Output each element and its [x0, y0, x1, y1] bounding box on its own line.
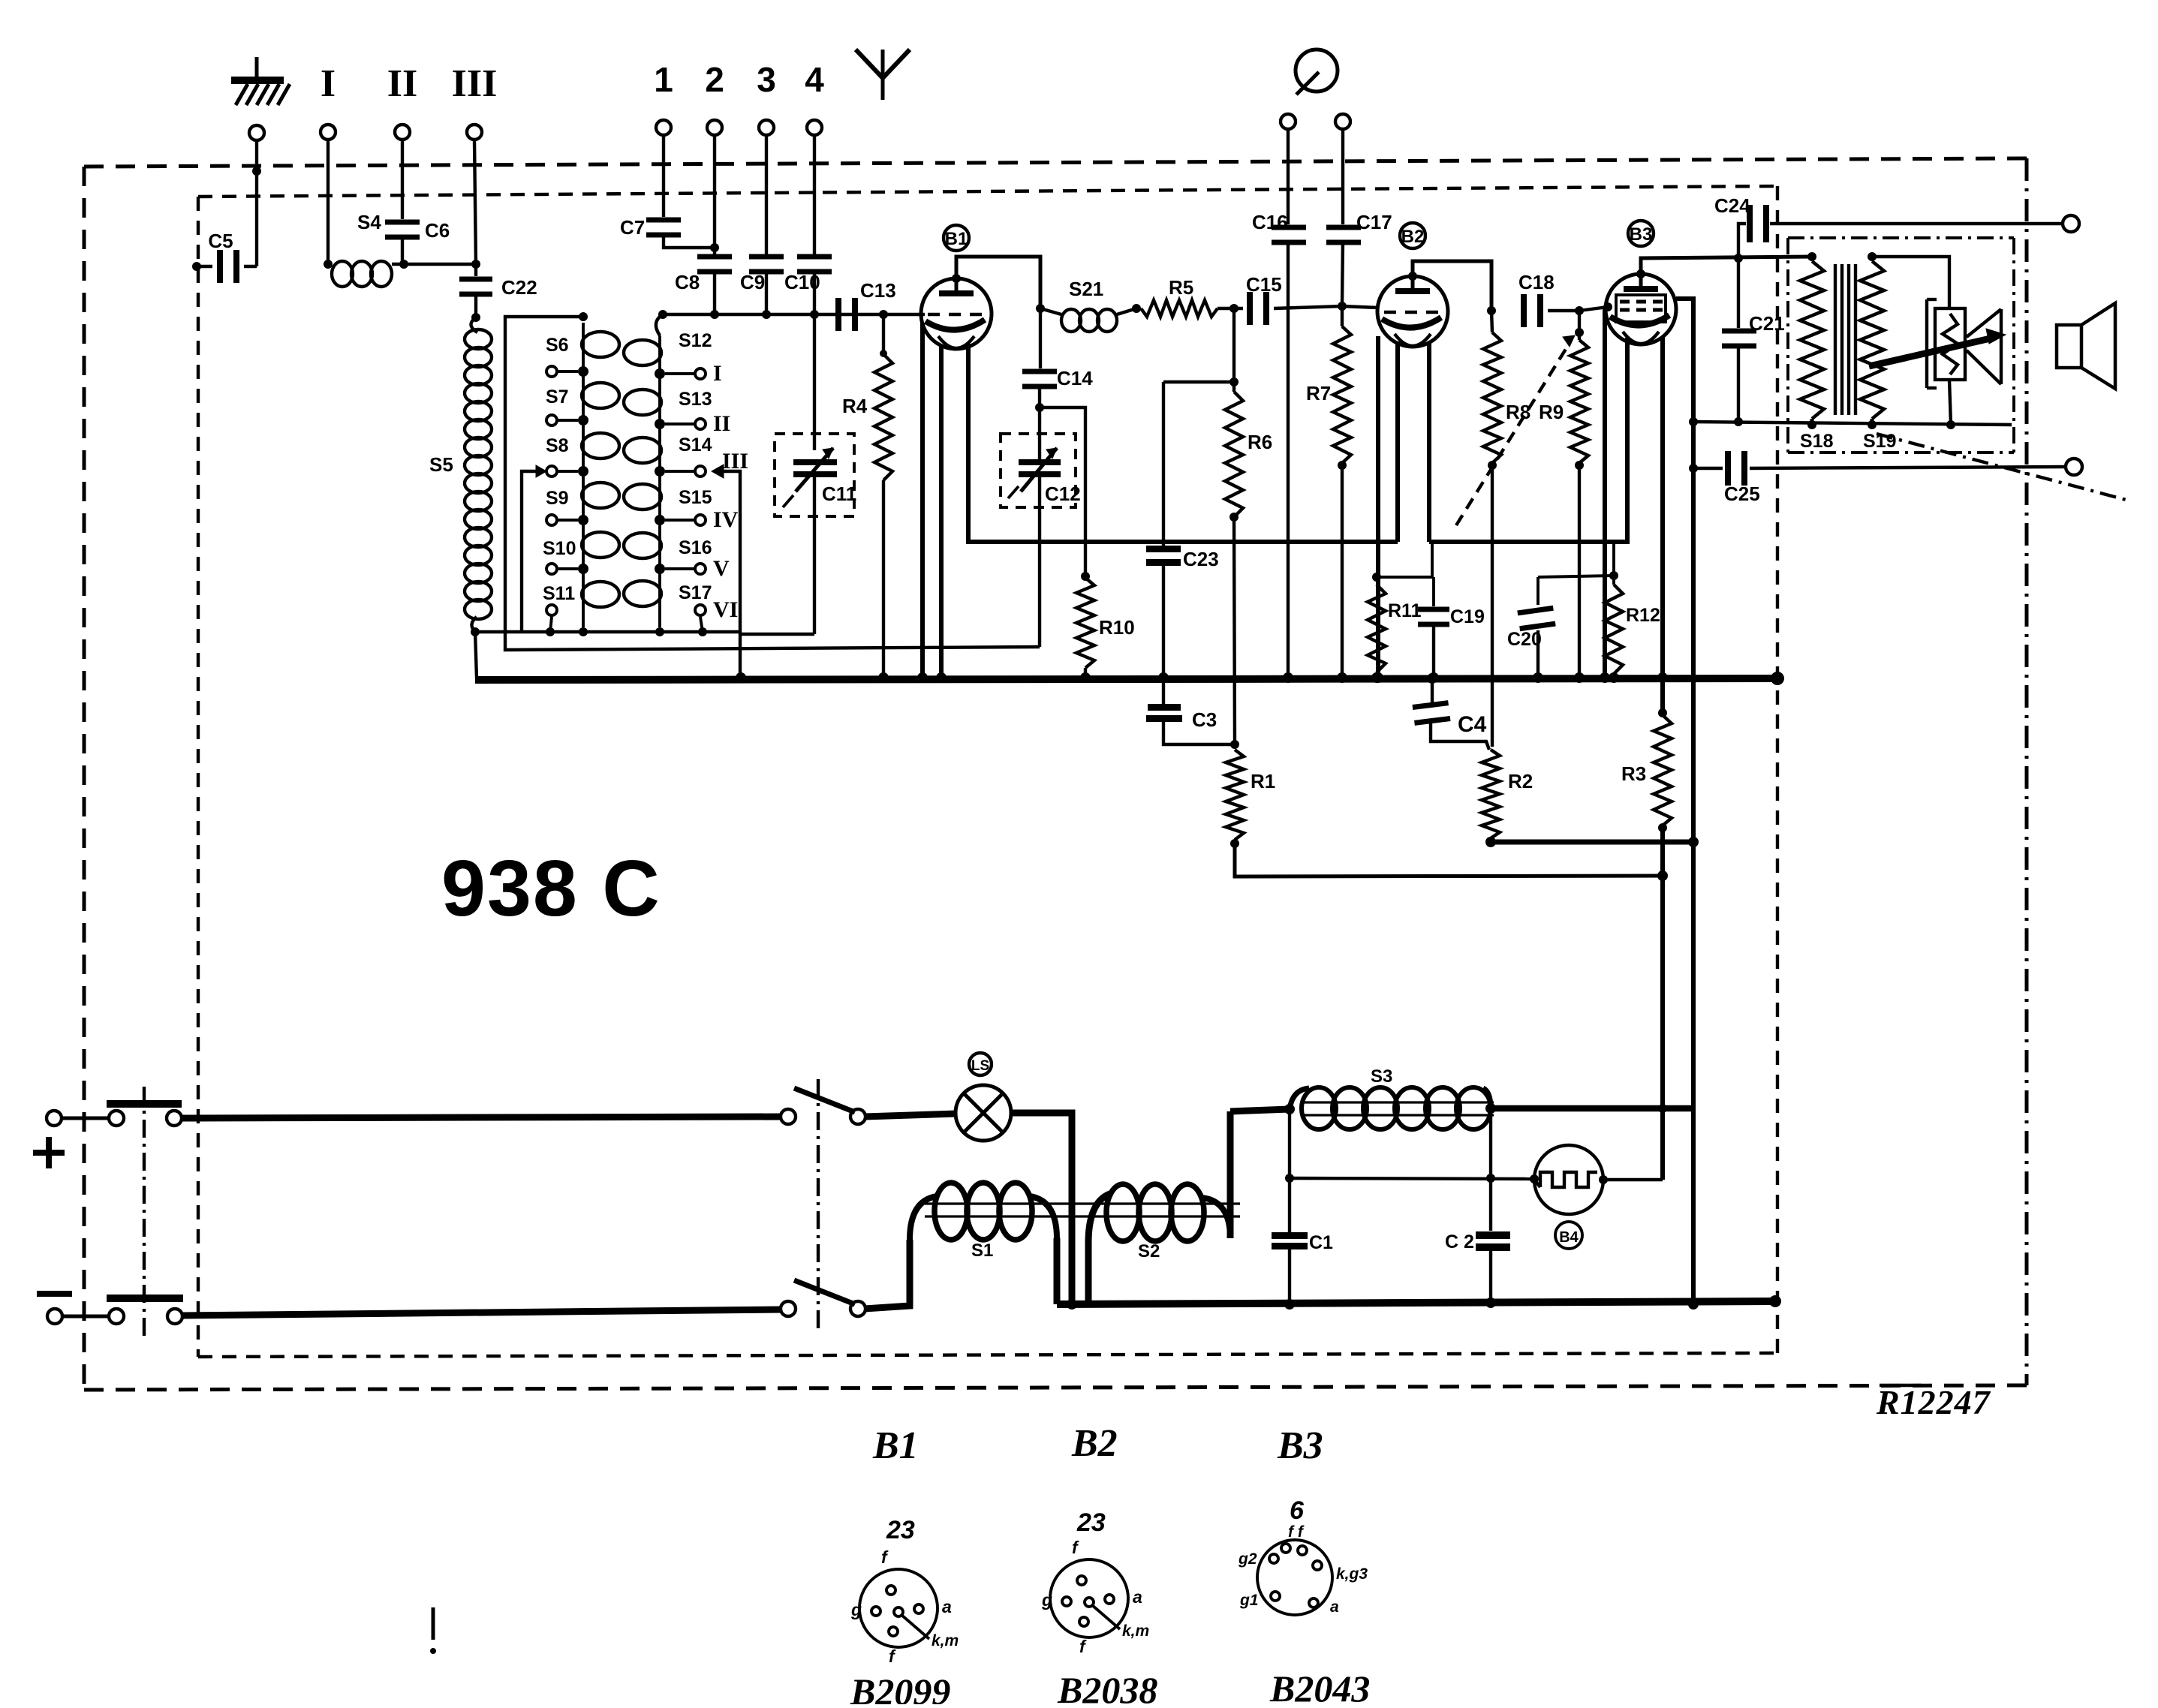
node C23/bus — [1158, 672, 1169, 683]
svg-text:LS: LS — [971, 1058, 989, 1074]
tube B1 cathode — [926, 320, 985, 330]
wire terminal 3 down — [765, 134, 768, 259]
plus terminal group — [47, 1100, 781, 1126]
svg-text:3: 3 — [757, 60, 776, 99]
wire S3 to risers — [1491, 1105, 1693, 1112]
coil S8 — [582, 433, 619, 459]
svg-text:C20: C20 — [1507, 629, 1542, 650]
node B4 left — [1530, 1174, 1539, 1183]
svg-text:C11: C11 — [822, 483, 856, 505]
speaker driver coil box — [1935, 308, 1965, 380]
tube B2 grid — [1384, 311, 1396, 314]
svg-text:R7: R7 — [1306, 382, 1331, 404]
coil S7 — [582, 383, 619, 408]
S1 core lines — [925, 1204, 1240, 1216]
exclamation mark — [430, 1607, 436, 1654]
antenna symbol — [856, 50, 910, 100]
svg-text:S18: S18 — [1800, 431, 1834, 452]
wire terminal II down — [401, 140, 404, 219]
capacitor C21 — [1722, 258, 1785, 422]
node I/S4 — [324, 260, 333, 269]
svg-text:B2043: B2043 — [1269, 1667, 1370, 1704]
node riser A / S3 line — [1658, 1104, 1667, 1113]
coil S11 — [582, 582, 619, 607]
svg-text:R2: R2 — [1508, 770, 1533, 792]
svg-text:I: I — [321, 62, 336, 105]
wire B3 lead4 riser B — [1676, 299, 1693, 1304]
node C16/bus — [1283, 672, 1293, 683]
transformer secondary S19 — [1860, 261, 1896, 452]
B4 label circle — [1555, 1222, 1582, 1249]
output terminal top — [2063, 215, 2079, 232]
inner chassis dashed box — [198, 186, 1777, 197]
svg-text:C6: C6 — [425, 219, 450, 242]
wire S5 bottom to bus — [475, 632, 477, 678]
svg-text:III: III — [452, 62, 498, 105]
svg-text:R6: R6 — [1248, 431, 1272, 453]
choke S1 — [910, 1183, 1057, 1261]
coil S5 — [429, 317, 492, 632]
wire terminal 1 down — [662, 136, 665, 217]
wire B2 lead cathode — [1376, 336, 1380, 678]
svg-text:f f: f f — [1288, 1523, 1305, 1541]
wire B1 grid stub — [921, 313, 925, 316]
svg-text:R4: R4 — [842, 395, 868, 417]
node R4/bus — [878, 672, 889, 683]
svg-text:S10: S10 — [543, 538, 576, 559]
node C2/power bus — [1485, 1298, 1496, 1308]
capacitor C25 — [1693, 451, 2066, 505]
lamp LS — [865, 1085, 1011, 1141]
node S6 top — [579, 312, 588, 321]
resistor R5 — [1141, 276, 1217, 317]
coil S6-S11 spine — [582, 323, 585, 627]
wire terminal III down — [474, 140, 476, 264]
node R2 line / riser B — [1688, 837, 1699, 847]
speaker driver bracket — [1927, 299, 1937, 388]
node R5/C15/R6 — [1229, 304, 1239, 313]
transformer primary S18 — [1800, 261, 1834, 452]
svg-text:C23: C23 — [1183, 548, 1219, 570]
node S3 right — [1485, 1103, 1496, 1114]
node R1 bottom — [1230, 839, 1239, 848]
plus sign — [33, 1137, 65, 1168]
node C9/grid — [762, 310, 771, 319]
svg-text:VI: VI — [713, 597, 738, 622]
wire terminal 4 down — [813, 134, 816, 259]
terminal II — [395, 125, 410, 140]
node B1 filament1/bus — [936, 672, 947, 683]
node B2 anode/C18/R8 — [1487, 306, 1496, 315]
svg-text:V: V — [713, 556, 730, 581]
coil S4 — [332, 211, 392, 287]
wire B4 right to riser A — [1603, 1178, 1663, 1181]
coil S12-S17 spine — [658, 335, 661, 627]
svg-text:S8: S8 — [546, 435, 569, 456]
svg-text:S17: S17 — [679, 582, 712, 603]
wire speaker common line — [1693, 422, 2012, 425]
capacitor C5 — [192, 230, 257, 283]
svg-text:C19: C19 — [1450, 606, 1485, 627]
node R8 bottom — [1488, 461, 1497, 470]
output transformer dash-dot box — [1788, 238, 2014, 453]
svg-text:R5: R5 — [1169, 276, 1193, 299]
svg-text:S6: S6 — [546, 335, 569, 356]
resistor R1 — [1226, 750, 1275, 840]
wire grid line to B1 — [663, 313, 921, 316]
capacitor C3 — [1146, 678, 1235, 744]
S6-S11 taps — [546, 366, 588, 632]
resistor R3 — [1621, 715, 1672, 825]
node C19/bus — [1428, 672, 1439, 683]
svg-text:C5: C5 — [208, 230, 233, 252]
svg-text:C3: C3 — [1192, 708, 1217, 731]
svg-text:a: a — [942, 1597, 952, 1616]
terminal 4 — [807, 120, 822, 135]
node R9/bus — [1574, 672, 1585, 683]
S3 core lines — [1301, 1102, 1494, 1115]
wire driver bottom — [1949, 380, 1951, 425]
wire R2 to riser B — [1491, 840, 1693, 845]
svg-text:II: II — [387, 62, 417, 105]
svg-text:C21: C21 — [1749, 312, 1785, 335]
coil S15 — [624, 484, 661, 510]
wire lamp to dip — [1011, 1113, 1072, 1304]
tube B2 label circle — [1400, 223, 1425, 248]
node C18/B3 grid — [1575, 306, 1584, 315]
wire S12 top — [656, 314, 663, 335]
volume control wiper dash arrow — [1456, 335, 1575, 525]
capacitor C7 — [620, 216, 715, 248]
wire S3 right down — [1489, 1108, 1492, 1231]
wire switch to S1 — [865, 1240, 910, 1309]
variable capacitor C11 — [775, 314, 856, 634]
tube B1 anode — [939, 290, 974, 296]
wire C14 to R10 — [1040, 407, 1085, 576]
capacitor C14 — [1022, 308, 1093, 407]
capacitor C15 — [1246, 273, 1342, 325]
capacitor C6 — [385, 219, 450, 264]
socket B2 pin diagram — [1041, 1508, 1149, 1656]
wire heater line B2-B3 — [1427, 341, 1431, 542]
resistor R11 — [1368, 543, 1432, 678]
capacitor C16 — [1252, 130, 1306, 678]
svg-text:C24: C24 — [1714, 194, 1750, 217]
wire B2 lead filament1 — [1395, 341, 1400, 542]
svg-text:C17: C17 — [1356, 211, 1392, 233]
wire S1 to power bus — [1054, 1238, 1061, 1304]
node lamp dip — [1067, 1299, 1077, 1310]
node C1 top line — [1285, 1174, 1294, 1183]
capacitor C19 — [1418, 577, 1485, 678]
wire B3 lead3 riser A — [1660, 336, 1665, 715]
node VI stub — [698, 627, 707, 636]
coil S10 — [582, 532, 619, 558]
svg-text:C1: C1 — [1309, 1232, 1333, 1253]
wire B1 lead filament1 — [939, 345, 944, 678]
node B3 lead1/bus — [1600, 672, 1610, 683]
node coil bottom — [579, 627, 588, 636]
node S19 bottom — [1868, 420, 1877, 429]
coil S6 — [582, 332, 619, 357]
minus terminal group — [47, 1295, 781, 1324]
svg-text:g1: g1 — [1239, 1592, 1259, 1609]
wire B1 anode to S21 — [956, 257, 1040, 308]
switch link dash-dot — [143, 1087, 146, 1336]
node R6 bottom — [1229, 513, 1239, 522]
svg-text:B3: B3 — [1277, 1424, 1323, 1467]
svg-text:B3: B3 — [1630, 224, 1653, 245]
svg-text:B2038: B2038 — [1057, 1669, 1157, 1704]
svg-text:C10: C10 — [784, 271, 820, 293]
capacitor C4 — [1412, 678, 1489, 750]
node III/C22 — [471, 260, 480, 269]
wire grid to B3 — [1579, 307, 1608, 311]
svg-text:S3: S3 — [1371, 1066, 1392, 1087]
resistor R12 — [1605, 542, 1660, 678]
svg-text:k,m: k,m — [1122, 1622, 1149, 1640]
coil S9 — [582, 483, 619, 508]
node R9 bottom — [1575, 461, 1584, 470]
node riser B / C25 line — [1689, 464, 1698, 473]
capacitor C17 — [1326, 130, 1392, 306]
svg-text:R9: R9 — [1539, 401, 1564, 423]
wire B4 feed line — [1290, 1178, 1534, 1179]
wire S19 to driver — [1872, 257, 1949, 308]
wire terminal 2 down — [713, 134, 716, 259]
node C10/grid — [810, 310, 819, 319]
svg-text:R12247: R12247 — [1876, 1383, 1991, 1421]
node S18 bottom — [1807, 420, 1816, 429]
minus sign — [37, 1291, 72, 1297]
svg-text:R11: R11 — [1388, 600, 1422, 621]
capacitor C8 — [675, 254, 732, 315]
node C23/R6 — [1229, 377, 1239, 386]
wire III tap arrow vertical — [712, 465, 740, 678]
wire grid line to B2 — [1342, 306, 1378, 308]
svg-text:C7: C7 — [620, 216, 645, 239]
node C7/C8 — [710, 243, 719, 252]
ground symbol — [231, 57, 290, 105]
node grid/R4 — [879, 310, 888, 319]
terminal III — [467, 125, 482, 140]
wire S4 to III line — [392, 263, 476, 266]
resistor R6 — [1225, 308, 1272, 744]
choke S2 — [1088, 1111, 1230, 1304]
resistor R8 — [1483, 311, 1530, 747]
wire B3 lead2 to heater line — [1625, 338, 1630, 542]
svg-text:S16: S16 — [679, 537, 712, 558]
node R1 line / riser A — [1657, 871, 1668, 881]
node R12/bus — [1609, 672, 1619, 683]
svg-text:C22: C22 — [501, 276, 537, 299]
svg-text:R3: R3 — [1621, 762, 1646, 785]
svg-text:23: 23 — [1076, 1508, 1106, 1537]
wire coil box left (S6 bank feed) — [505, 317, 1040, 650]
svg-text:B2099: B2099 — [850, 1670, 950, 1704]
svg-text:R1: R1 — [1251, 770, 1275, 792]
svg-text:S13: S13 — [679, 389, 712, 410]
tube B1 grid — [928, 313, 940, 317]
svg-text:C13: C13 — [860, 279, 896, 302]
svg-text:B2: B2 — [1401, 227, 1425, 247]
node C4/bus — [1427, 673, 1437, 684]
svg-text:S7: S7 — [546, 386, 569, 407]
choke S3 — [1290, 1066, 1491, 1129]
node S17 bottom — [655, 627, 664, 636]
switch link dash-dot middle — [817, 1079, 820, 1330]
svg-text:IV: IV — [713, 507, 739, 532]
coil S21 — [1040, 278, 1136, 332]
wire S3-left down to C1 — [1288, 1109, 1291, 1178]
switch lower — [781, 1280, 865, 1316]
node anode/S21 — [1036, 304, 1045, 313]
node III arrow / bus — [736, 672, 746, 683]
terminal 1 — [656, 120, 671, 135]
node S18 top — [1807, 252, 1816, 261]
node R7/bus — [1337, 672, 1347, 683]
svg-text:k,m: k,m — [932, 1632, 959, 1649]
node C1/power bus — [1284, 1299, 1295, 1310]
tube B2 cathode — [1382, 317, 1441, 328]
terminal 3 — [759, 120, 774, 135]
svg-text:C4: C4 — [1458, 712, 1487, 737]
wire S2 to S3 — [1230, 1109, 1290, 1111]
svg-text:S15: S15 — [679, 487, 712, 508]
coil S17 — [624, 581, 661, 606]
tube B2 filament — [1395, 334, 1431, 346]
capacitor C24 — [1714, 194, 2063, 258]
node B1 cathode/bus — [917, 672, 928, 683]
wire terminal I down — [327, 140, 330, 264]
svg-text:II: II — [713, 411, 730, 436]
capacitor C18 — [1518, 271, 1579, 327]
svg-text:S21: S21 — [1069, 278, 1103, 300]
socket B1 pin diagram — [850, 1516, 959, 1666]
svg-text:C25: C25 — [1724, 483, 1760, 505]
mechanical link diagonal — [1877, 434, 2132, 501]
pickup terminal left — [1281, 114, 1296, 129]
svg-text:a: a — [1133, 1587, 1142, 1607]
node R10 top — [1081, 572, 1090, 581]
node S4/C6 — [399, 260, 408, 269]
wire C11 bottom to ladder line — [741, 633, 814, 636]
node C20/bus — [1533, 672, 1543, 683]
tube B3 filament — [1623, 332, 1659, 344]
pickup terminal right — [1335, 114, 1350, 129]
svg-text:g2: g2 — [1238, 1550, 1257, 1568]
node S3right/B4 line — [1486, 1174, 1495, 1183]
capacitor C23 — [1146, 382, 1234, 678]
svg-text:R12: R12 — [1626, 605, 1660, 626]
svg-text:I: I — [713, 361, 722, 386]
capacitor C1 — [1272, 1178, 1333, 1304]
svg-text:4: 4 — [805, 60, 824, 99]
node power bus end — [1769, 1295, 1781, 1307]
svg-text:S14: S14 — [679, 435, 712, 456]
svg-text:23: 23 — [886, 1516, 915, 1544]
node R7 bottom — [1338, 461, 1347, 470]
rectifier B4 — [1534, 1145, 1603, 1214]
tube B1 label circle — [944, 225, 969, 251]
node ground/dash crossing — [252, 167, 261, 176]
lamp LS label — [969, 1053, 992, 1075]
svg-text:S1: S1 — [971, 1240, 993, 1261]
node riser A / bus — [1657, 672, 1668, 683]
node B3 grid entry — [1603, 302, 1612, 311]
node R11/bus — [1371, 672, 1382, 683]
node riser B / power bus — [1688, 1299, 1699, 1310]
wire R1 to riser — [1235, 843, 1663, 877]
wire B3 lead1 — [1603, 309, 1607, 678]
node B4 right — [1599, 1175, 1608, 1184]
svg-text:C16: C16 — [1252, 211, 1288, 233]
switch upper — [781, 1088, 865, 1124]
node bus end — [1771, 672, 1784, 685]
node S12/grid — [658, 310, 667, 319]
tube B3 label circle — [1628, 221, 1654, 246]
svg-text:g: g — [1041, 1590, 1052, 1610]
wire B2 anode to C18 — [1413, 261, 1491, 311]
node R10/bus — [1080, 672, 1091, 683]
svg-text:S2: S2 — [1138, 1241, 1160, 1261]
node C17/R7/grid — [1338, 302, 1347, 311]
S12-S17 taps — [655, 361, 748, 632]
node C24/anode line — [1734, 254, 1743, 263]
resistor R10 — [1076, 578, 1135, 678]
resistor R2 — [1482, 750, 1533, 838]
tube B2 anode — [1395, 288, 1430, 294]
capacitor C10 — [784, 254, 832, 315]
svg-text:C 2: C 2 — [1445, 1231, 1474, 1252]
svg-text:B1: B1 — [945, 229, 968, 249]
power bottom bus — [1057, 1301, 1775, 1304]
terminal I — [321, 125, 336, 140]
outer chassis dashed box — [84, 158, 2027, 167]
node R3 top — [1658, 708, 1667, 717]
tube B1 envelope — [921, 278, 992, 349]
node R3 bottom — [1658, 823, 1667, 832]
node S11 stub — [546, 627, 555, 636]
wire B1 lead cathode — [920, 323, 925, 678]
node C22/S5 — [471, 313, 480, 322]
svg-text:C9: C9 — [740, 271, 765, 293]
node B2 cathode/bus — [1373, 672, 1383, 683]
svg-text:C18: C18 — [1518, 271, 1555, 293]
wire B1 lead filament2 to heater line — [968, 344, 1398, 542]
svg-text:C12: C12 — [1045, 483, 1081, 505]
drawing number R12247 — [1876, 1383, 1991, 1421]
svg-text:S4: S4 — [357, 211, 381, 233]
capacitor C13 — [835, 279, 896, 331]
svg-text:R10: R10 — [1099, 616, 1135, 639]
capacitor C22 — [459, 264, 537, 317]
node C8/grid — [710, 310, 719, 319]
svg-text:S5: S5 — [429, 453, 453, 476]
svg-text:k,g3: k,g3 — [1336, 1565, 1368, 1583]
svg-text:B2: B2 — [1071, 1422, 1118, 1465]
terminal 2 — [707, 120, 722, 135]
node C21/speaker line — [1734, 417, 1743, 426]
resistor R4 — [842, 314, 892, 678]
tube B2 envelope — [1377, 276, 1448, 347]
wire S8 tap arrow — [522, 465, 546, 632]
svg-text:R8: R8 — [1506, 401, 1530, 423]
svg-text:C8: C8 — [675, 271, 700, 293]
tube B1 filament — [938, 336, 974, 348]
variable capacitor C12 — [1001, 407, 1081, 647]
node S3 left — [1284, 1104, 1295, 1114]
